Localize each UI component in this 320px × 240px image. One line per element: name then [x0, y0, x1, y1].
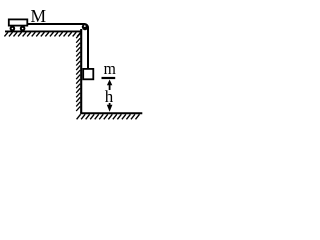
cart left wheel hub: [12, 28, 14, 30]
down arrow of h dimension: [109, 103, 111, 107]
table vertical edge (wall): [80, 29, 82, 113]
cart M body: [9, 19, 28, 25]
floor hatching: [77, 114, 140, 119]
wall hatching: [76, 34, 80, 111]
cart left wheel: [10, 26, 16, 32]
floor line: [80, 112, 142, 114]
pulley hub: [84, 25, 86, 27]
cart right wheel: [20, 26, 26, 32]
pulley at table corner: [82, 24, 88, 30]
table hatching: [4, 32, 80, 36]
string from cart over pulley to hanging mass: [28, 24, 88, 69]
cart right wheel hub: [22, 28, 24, 30]
reference bar at mass level: [102, 77, 116, 79]
svg-text:m: m: [104, 59, 116, 78]
table surface line: [5, 30, 81, 32]
up arrow of h dimension: [107, 80, 112, 86]
hanging mass m block: [83, 69, 93, 79]
